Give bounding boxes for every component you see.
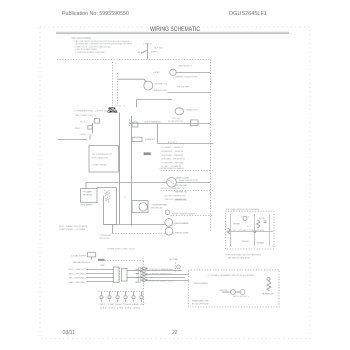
svg-text:SENSOR (T): SENSOR (T) [186,110,197,112]
defrost heater circle [165,219,173,227]
control feed wire B (dashed vertical) [117,73,119,105]
supply row 4 wire [86,281,113,283]
svg-text:DOOR SWITCH: DOOR SWITCH [168,121,183,123]
defrost sym 2 [108,296,111,299]
strip feed wires [127,270,142,272]
svg-text:DEFROST HEATER: DEFROST HEATER [174,222,189,225]
control feed wire A (dashed vertical) [112,62,114,107]
fanout wire 1 [145,270,182,272]
evap fan wire [120,182,167,184]
svg-text:SEE NOTE 2: SEE NOTE 2 [178,66,193,68]
condenser fan motor [139,203,147,211]
dashed harness wire 2 [161,170,214,172]
svg-text:BLK--: BLK-- [80,121,88,123]
relay cap mark [264,220,267,222]
plug box [88,252,96,257]
svg-text:YEL -- SWITCHED--: YEL -- SWITCHED-- [69,278,87,280]
svg-text:4 WIRE SET: 4 WIRE SET [145,139,156,141]
svg-text:13 ORN/BLK -- DEFROST: 13 ORN/BLK -- DEFROST [161,147,184,149]
svg-text:S/W COMPRESSOR KIT: S/W COMPRESSOR KIT [92,154,113,156]
icemaker box dashed [188,270,279,307]
svg-text:WHT--: WHT-- [75,128,83,130]
svg-text:CORD: CORD [100,265,105,267]
notes separator dashed [57,59,211,61]
title rule [56,31,289,33]
svg-text:HARNESS CONNECTOR REF: HARNESS CONNECTOR REF [176,76,198,79]
legend wire bottom [137,99,173,101]
svg-text:GRN---: GRN--- [80,134,89,136]
splice node [165,210,170,215]
defrost tstat wire [113,233,166,235]
svg-text:RELAY: RELAY [242,240,250,243]
harness connector bumps [168,141,177,143]
svg-text:CONDENSER FAN: CONDENSER FAN [151,203,167,206]
svg-text:GROUND PRONG -----: GROUND PRONG ----- [73,262,91,264]
defrost lower stems [102,300,142,302]
right schematic bus (dashed vertical) [210,60,212,233]
svg-text:HOLD SW (N.C.): HOLD SW (N.C.) [233,296,249,298]
connector dashes [129,120,131,128]
defrost sym 3 stem [117,292,119,296]
winding zigzag [105,191,111,203]
legend motor symbol [144,81,153,90]
control top wire [136,99,138,101]
wire to legend motor [117,78,143,80]
svg-text:2. ALL WIRING AND COMPONENTS M: 2. ALL WIRING AND COMPONENTS MUST BE REP… [75,43,132,46]
dashed harness wire 4 [171,215,214,217]
relay cap mark 2 [264,222,267,224]
svg-text:DEFROST TSTAT: DEFROST TSTAT [174,231,190,234]
svg-text:POWER SUPPLY CORD + PLUG: POWER SUPPLY CORD + PLUG [107,248,134,250]
svg-text:LINE L1: LINE L1 [144,44,154,46]
svg-text:SPLICE REF: SPLICE REF [177,87,191,89]
svg-text:MOTOR 115V: MOTOR 115V [100,238,110,240]
fanout wire 3 [145,277,185,279]
svg-text:15 BLU/WHT -- FREEZER: 15 BLU/WHT -- FREEZER [161,155,183,157]
icemaker link wire 2 [235,291,240,293]
defrost sym 4 stem [125,292,127,296]
svg-text:SUPPLY: SUPPLY [151,51,159,53]
svg-text:COMPRESSOR: COMPRESSOR [100,235,111,237]
svg-text:BLK 120V: BLK 120V [154,48,164,50]
page dotted border [40,27,310,339]
defrost sym 1 stem [101,292,103,296]
svg-text:MOTOR COIL: MOTOR COIL [155,84,169,86]
relay left coil [228,228,231,234]
compressor drop wire [112,225,114,234]
svg-text:BLK -- LINE HOT: BLK -- LINE HOT [69,269,87,271]
terminal link wire [92,123,94,133]
icemaker entry marks [177,265,181,269]
legend lamp wire [176,72,210,74]
connector shell K [114,267,120,283]
relay coil circle [243,217,247,221]
svg-text:120 VAC SUPPLY--: 120 VAC SUPPLY-- [71,254,87,257]
svg-text:MOLD HEATER--: MOLD HEATER-- [194,282,209,285]
svg-text:N.O. CONTACT COIL 120V A: N.O. CONTACT COIL 120V AUX [233,229,265,232]
relay internal wire 2 [254,214,256,246]
terminal strip joins 2 [141,273,143,275]
fanout wire 4 [145,280,189,282]
defrost heater wire [104,224,165,226]
defrost sym 4 [124,296,127,299]
svg-text:03/11: 03/11 [63,330,76,336]
legend wire lower [168,92,211,94]
svg-text:TO TERMINATE [THIS] + CONTR: TO TERMINATE [THIS] + CONTROL (W) [74,110,107,113]
svg-text:24 GRN/YEL CABINET GND---: 24 GRN/YEL CABINET GND--- [149,280,173,283]
terminal box BLK [94,119,99,124]
relay internal wire 3 [269,214,271,246]
defrost sym 2 stem [109,292,111,296]
connector mating dashes [119,268,121,282]
svg-text:LAMP: LAMP [153,71,161,74]
svg-text:12 BLK HARNESS: 12 BLK HARNESS [144,121,162,124]
terminal strip lug 3 [146,279,148,281]
relay node dot [254,231,256,233]
run winding wire [103,196,105,225]
svg-text:BOARD: BOARD [257,241,264,244]
svg-text:3. WIRE COLOR CODES PER CHART: 3. WIRE COLOR CODES PER CHART SHOWN [75,45,111,48]
svg-text:4. SEE TECH SHEET DATA: 4. SEE TECH SHEET DATA [75,48,97,51]
terminal strip lug 2 [146,273,148,275]
icemaker terminal [267,278,270,281]
svg-text:1. ALL COMPONENTS SHOWN IN OFF: 1. ALL COMPONENTS SHOWN IN OFF POSITION … [75,40,130,43]
svg-text:MACHINE COMPARTMENT HARNESS: MACHINE COMPARTMENT HARNESS [172,213,195,216]
svg-text:23 WHT/RED WATER VALVE--: 23 WHT/RED WATER VALVE-- [149,272,173,275]
svg-text:CABINET LINER: CABINET LINER [175,177,189,180]
left bus vertical [119,113,121,225]
svg-text:TAB CONNECTOR [#]--: TAB CONNECTOR [#]-- [75,114,96,117]
defrost tstat circle [165,227,173,235]
relay mid wire [227,231,274,233]
plug drop [91,257,93,260]
svg-text:FREEZER COMPARTMENT HARNESS: FREEZER COMPARTMENT HARNESS [160,167,184,170]
svg-text:FRESH FOOD COMPARTMENT LINE: FRESH FOOD COMPARTMENT LINE [161,187,185,190]
svg-text:MOTOR 120V: MOTOR 120V [151,208,164,210]
svg-text:DGUS2645LF1: DGUS2645LF1 [229,11,267,17]
top harness wire [86,182,120,184]
thermistor circle [175,108,183,115]
cord bus vertical dashed [143,261,145,306]
evap fan wire right [176,182,210,184]
defrost sym 5 stem [133,292,135,296]
supply row 3 wire [86,277,113,279]
icemaker switch circle 2 [240,290,245,295]
terminal strip ticks [136,268,139,270]
svg-text:WINDING SYM: WINDING SYM [153,90,167,92]
svg-text:EARTH BOND: EARTH BOND [175,191,187,194]
cord connector blob [98,259,105,261]
terminal strip ticks 2 [136,273,139,275]
title rule lower [56,33,289,35]
svg-text:-- NOT USED ON SOME MODEL: -- NOT USED ON SOME MODELS [164,195,186,197]
terminal strip circle 2 [142,270,145,273]
harness wire h1 [158,143,214,145]
terminal strip circle 3 [142,273,145,276]
svg-text:LIMIT TSTAT HEAT TIMER: LIMIT TSTAT HEAT TIMER LAMP SW [99,303,146,306]
ptc out wire [97,187,117,189]
svg-text:GRN -- GROUND---: GRN -- GROUND--- [69,282,87,284]
condenser fan box [132,201,148,213]
terminal box WHT [88,126,92,130]
svg-text:17 WHT/GRN -- RETURN: 17 WHT/GRN -- RETURN [161,163,183,165]
svg-text:RELAY (R): RELAY (R) [83,193,92,196]
defrost sym 1 [100,296,103,299]
svg-text:RUN CAPACITOR: RUN CAPACITOR [92,156,108,159]
winding join [104,224,117,226]
connector at wire left [132,122,138,127]
ground wire riser [89,135,91,140]
svg-text:5. CONTROL BOARD PWR LIN: 5. CONTROL BOARD PWR LINE [75,51,105,54]
svg-text:(4) C: (4) C [117,105,125,107]
icemaker entry dashes [175,263,177,272]
arrow to L1 [141,51,147,54]
defrost row wire [99,291,144,293]
dark connector block [144,152,151,155]
terminal strip ticks 3 [136,277,139,279]
strip feed wires 2 [127,277,142,279]
svg-text:CHASSIS GND: CHASSIS GND [175,199,187,202]
svg-text:EVAP FAN MOTOR: EVAP FAN MOTOR [179,179,198,182]
svg-text:SEE SERVICE DATA SHEET: SEE SERVICE DATA SHEET [228,257,251,260]
defrost sym 5 [132,296,135,299]
svg-text:AT 15F OPEN 48F: AT 15F OPEN 48F [192,303,210,306]
svg-text:S/N: THRU VB13579 ONLY (BO: S/N: THRU VB13579 ONLY (BOARD) [226,208,259,211]
four wire box [132,137,142,141]
svg-text:NTC 10K: NTC 10K [173,118,182,120]
terminal strip joins 3 [141,279,143,281]
supply row 2 wire [86,273,113,275]
relay resistor [257,220,261,228]
harness riser [157,124,159,144]
svg-text:GROUND REF: GROUND REF [175,185,188,187]
dashed harness wire 3 [161,190,214,192]
svg-text:16 YEL/RED -- FRESH FOOD: 16 YEL/RED -- FRESH FOOD [161,158,185,160]
defrost sym 6 stem [141,292,143,296]
svg-text:N.C.: N.C. [247,226,253,228]
main wire to bus [129,123,210,125]
fanout wire 2 [145,274,189,276]
svg-text:START RELAY -- (S) TERM: START RELAY -- (S) TERM [59,228,85,231]
svg-text:NOTE: RELAY BOARD USED ON: NOTE: RELAY BOARD USED ON SOME MODELS [226,254,261,257]
svg-text:FILL TUBE: FILL TUBE [169,259,179,261]
icemaker link wire [222,291,231,293]
defrost sym 3 [116,296,119,299]
svg-text:22: 22 [172,330,177,336]
start winding wire [116,188,118,225]
svg-text:R 22K: R 22K [259,218,266,220]
icemaker resistor [267,281,271,291]
evap fan motor dashes [169,180,175,185]
relay internal wire 1 [230,214,232,246]
terminal strip circle 5 [142,279,145,282]
svg-text:RUN -- CAPACITOR (35 MFD): RUN -- CAPACITOR (35 MFD) [59,225,87,228]
evap fan motor [167,178,177,188]
power line wire L1 [147,44,149,60]
terminal strip circle 4 [142,276,145,279]
connector shell L [122,269,128,282]
legend lamp symbol [170,69,176,75]
legend motor stem [144,79,146,82]
terminal strip ticks 4 [136,281,139,283]
defrost sym 6 [140,296,143,299]
svg-text:SENSE: SENSE [233,224,241,226]
svg-text:P1 P2: P1 P2 [241,217,250,219]
svg-text:(1) (2) (3) (4): (1) (2) (3) (4) (5) [100,308,141,310]
cord dashed run [105,260,144,262]
svg-text:PTC START: PTC START [83,190,93,193]
svg-text:Publication No: 5995590550: Publication No: 5995590550 [62,11,129,17]
relay board box dashed [225,211,274,249]
ground wire left [58,139,88,141]
supply row 1 wire [86,269,113,271]
terminal strip lug 4 [140,271,142,273]
svg-text:10 MFD 330VAC: 10 MFD 330VAC [92,164,107,167]
terminal strip joins [141,268,143,270]
compressor box [89,146,119,173]
svg-text:WHT -- NEUTRAL--: WHT -- NEUTRAL-- [69,272,87,275]
legend drop wire [136,100,138,108]
svg-text:NOTES: (UNLESS OTHERWISE): NOTES: (UNLESS OTHERWISE) [72,36,92,40]
svg-text:14 BRN/WHT -- SENSOR: 14 BRN/WHT -- SENSOR [161,151,183,153]
terminal strip lug 5 [140,276,142,278]
ptc feed stub [85,183,87,189]
svg-text:THERMOSTAT CLOSE: THERMOSTAT CLOSE [192,299,210,302]
terminal strip circle 1 [142,267,145,270]
mid bus vertical [131,116,133,226]
terminal strip lug 1 [146,268,148,270]
ptc box [81,189,98,203]
svg-text:OVERLOAD PROT: OVERLOAD PROT [80,203,94,206]
svg-text:OPTIONAL ICE MAKER CIRCUIT: OPTIONAL ICE MAKER CIRCUIT (IF EQUIPPED) [208,274,255,277]
svg-text:22 BLK/WHT ICEMAKER FEED: 22 BLK/WHT ICEMAKER FEED [149,268,173,271]
svg-text:HEATER 165W: HEATER 165W [262,293,275,296]
winding zigzag 2 [105,191,111,202]
svg-text:MOTOR--: MOTOR-- [220,290,229,292]
icemaker switch circle 1 [231,290,236,295]
terminal strip inner posts [139,268,141,283]
svg-text:CONTROL: CONTROL [108,110,118,114]
relay box small [191,120,198,126]
